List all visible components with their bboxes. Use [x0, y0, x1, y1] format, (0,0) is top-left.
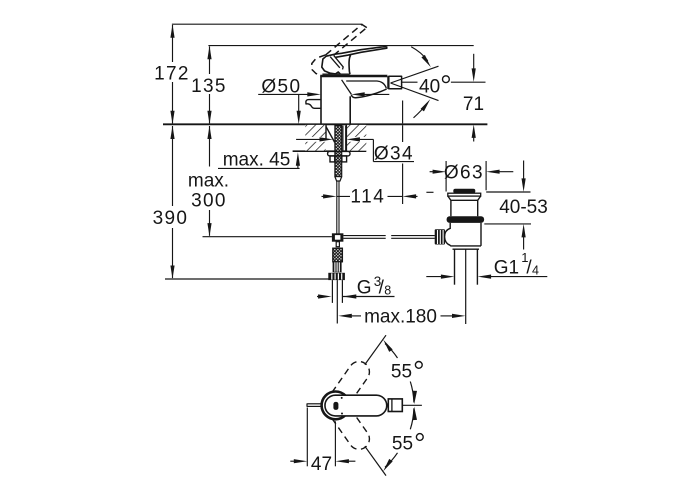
plan aerator [388, 399, 402, 412]
arrow dim max300 bottom [207, 223, 211, 237]
dim 390 line [172, 126, 174, 278]
shank cone [326, 127, 335, 143]
arrow G1-1/4 left [441, 275, 455, 279]
svg-text:47: 47 [311, 454, 332, 475]
horseshoe washer [328, 151, 350, 156]
114 ext line [402, 101, 404, 205]
mounting plane line [163, 123, 487, 125]
G1 1/4 dim [426, 276, 445, 278]
plug rim [448, 193, 481, 196]
faucet body right edge [349, 96, 351, 124]
lever knob [435, 229, 445, 244]
plan base circle [322, 392, 350, 420]
dim 135 line [209, 46, 211, 123]
arrow G3/8 left [318, 294, 332, 298]
arrow dim40-53 top [522, 178, 526, 192]
pop-up waste assembly [426, 189, 531, 324]
arrow O50 right [351, 92, 365, 96]
spout inner line [346, 81, 386, 88]
handle raised position dashed [312, 24, 367, 74]
tailpipe [454, 249, 456, 285]
arrow dim172 bottom [170, 111, 174, 125]
body bottom step [453, 248, 480, 250]
svg-text:71: 71 [463, 94, 484, 115]
plan lever left [307, 403, 321, 405]
handle inner fold lines [330, 57, 340, 68]
angle leg bottom [365, 446, 386, 475]
handle lever outline [322, 46, 387, 74]
pop-up rod horizontal [203, 236, 435, 239]
svg-text:135: 135 [191, 76, 227, 97]
390 bottom ref line [165, 278, 332, 280]
arrow O50 left [307, 92, 321, 96]
arrow O63 left [433, 170, 447, 174]
arrow dim114 left [323, 194, 337, 198]
arrow dim71 bottom [472, 124, 476, 137]
degree symbol 40 [443, 76, 450, 83]
angle leg top [365, 335, 386, 364]
svg-text:390: 390 [153, 208, 189, 229]
arrow dim47 right [335, 459, 349, 463]
rod clevis [332, 233, 344, 246]
lever dome [445, 228, 451, 245]
svg-text:Ø34: Ø34 [374, 144, 414, 165]
arrow dim390 bottom [170, 266, 174, 280]
arrow dim71 top [472, 68, 476, 82]
svg-text:114: 114 [350, 187, 385, 208]
svg-text:G1: G1 [494, 258, 519, 279]
svg-text:Ø50: Ø50 [261, 77, 301, 98]
shank taper tip [335, 177, 342, 181]
arrow 55deg bottom inner [412, 406, 417, 420]
aerator [389, 76, 402, 89]
O50 right arrow tail [362, 93, 390, 95]
spout underside curve [351, 89, 386, 98]
arrow dim40-53 bottom [522, 224, 526, 238]
arrow max45 top [297, 111, 301, 125]
degree symbol 55 bottom [416, 434, 423, 441]
arrow 55deg top outer [381, 338, 392, 351]
counter bottom line [293, 150, 367, 152]
plan dots [341, 397, 343, 399]
max45 underline [218, 163, 300, 169]
G3/8 dim [317, 296, 395, 298]
top ref line left seg [426, 191, 433, 193]
svg-text:max.: max. [188, 171, 229, 192]
plug cap [453, 189, 475, 193]
neck [448, 196, 481, 216]
threaded shank upper [335, 126, 342, 177]
arrow O34 right [346, 137, 360, 141]
arrow max180 right [452, 314, 466, 318]
plan centerline right [402, 404, 422, 406]
faucet body+spout top edge [320, 75, 387, 78]
arrow 40deg arc top [421, 55, 432, 68]
svg-text:300: 300 [191, 191, 227, 212]
handle dome base line [322, 73, 349, 75]
arrow max180 left [338, 314, 352, 318]
svg-text:max.180: max.180 [364, 307, 437, 328]
dim 47 [290, 408, 355, 467]
plan body stadium [325, 395, 387, 416]
svg-text:4: 4 [532, 264, 539, 278]
svg-text:G: G [357, 278, 372, 299]
O50 leader underline [258, 93, 310, 95]
pull rod [336, 181, 338, 234]
spout V line [342, 80, 352, 95]
40deg leader line [402, 81, 418, 83]
dimension lines right [218, 94, 547, 316]
arrow dim114 right [403, 194, 417, 198]
40deg cone lines [391, 47, 486, 118]
svg-text:55: 55 [391, 362, 412, 383]
plan cartridge hole [333, 402, 338, 410]
max180 dim [349, 315, 361, 317]
arrow max45 bottom [296, 152, 300, 166]
dashed plan stadium lower [327, 400, 369, 450]
arrow dim390 top [170, 126, 174, 140]
o-ring flange [447, 216, 485, 223]
svg-text:40-53: 40-53 [499, 197, 548, 218]
angle arcs upper [385, 344, 414, 403]
svg-text:55: 55 [392, 434, 413, 455]
degree symbol 55 top [415, 362, 422, 369]
arrow 55deg bottom outer [381, 459, 392, 472]
arrow G3/8 right [343, 294, 357, 298]
arrow dim172 top [170, 24, 174, 38]
angle arcs lower [385, 408, 414, 467]
ext line top ref 172 [172, 23, 363, 25]
svg-text:172: 172 [154, 64, 190, 85]
body below flange [450, 223, 481, 246]
supply hose [328, 248, 345, 323]
bottom ref line [484, 223, 531, 225]
dim max300 line [209, 126, 211, 236]
faucet body left edge [320, 76, 322, 124]
shank assembly below plane [326, 124, 350, 233]
hole left edge [325, 124, 327, 140]
dashed plan stadium upper [327, 361, 369, 411]
dim 172 line [172, 25, 174, 123]
arrow O34 left [320, 137, 334, 141]
arrow dim135 top [207, 46, 211, 60]
dim 71 [473, 54, 475, 142]
svg-text:8: 8 [384, 284, 391, 298]
pull rod tube [342, 126, 344, 152]
ext line 135 ref [208, 45, 473, 47]
arrow 40deg arc bottom [421, 98, 432, 111]
mounting nut [330, 156, 347, 162]
O34 leader [296, 139, 414, 161]
hatch right block [346, 125, 366, 151]
svg-text:Ø63: Ø63 [444, 163, 484, 184]
arrow dim max300 top [207, 126, 211, 140]
40-53 dim verticals [523, 161, 525, 183]
svg-text:40: 40 [419, 77, 440, 98]
arrow dim135 bottom [207, 111, 211, 125]
aerator joint [387, 76, 389, 89]
top ref line right seg [486, 191, 530, 193]
arrow dim47 left [294, 459, 308, 463]
arrow G1-1/4 right [478, 275, 492, 279]
G3/8 thread lines [331, 280, 333, 303]
O63 ext lines [445, 161, 447, 192]
O50-max45 chain vertical [298, 94, 300, 113]
arrow O63 right [486, 170, 500, 174]
hatch left block [296, 125, 326, 151]
O63 dim [430, 171, 437, 173]
arrow 55deg top inner [412, 391, 417, 405]
40deg arc arrows [411, 47, 428, 61]
svg-text:max. 45: max. 45 [223, 150, 291, 171]
114 dim [322, 195, 418, 197]
cold start lever left [306, 100, 322, 109]
hole right edge [345, 124, 347, 151]
